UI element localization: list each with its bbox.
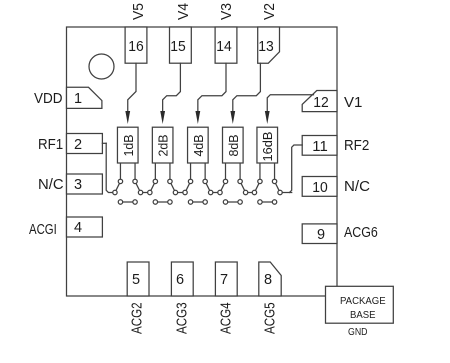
attenuator block 16dB <box>257 127 278 163</box>
pin-1 indicator circle <box>89 54 114 79</box>
node throw T3b <box>203 179 207 183</box>
wire bypass path stage 4 <box>226 201 241 203</box>
svg-text:13: 13 <box>258 39 274 55</box>
pin 16 box (V5) <box>125 27 147 63</box>
switch SW5a arm (input) <box>254 181 260 192</box>
wire node between stage 4 and 5 <box>246 192 255 194</box>
svg-text:1dB: 1dB <box>121 135 136 157</box>
switch SW2b arm (output) <box>170 181 176 192</box>
wire 2dB input lead <box>154 163 156 181</box>
svg-text:ACG2: ACG2 <box>130 302 146 334</box>
svg-text:5: 5 <box>132 272 140 288</box>
pin 1 box (VDD) <box>67 87 102 108</box>
pin 10 box (N/C) <box>302 177 337 197</box>
wire bypass path stage 5 <box>260 201 275 203</box>
node throw T4b <box>238 179 242 183</box>
switch SW4a arm (input) <box>220 181 226 192</box>
svg-text:8: 8 <box>264 272 272 288</box>
svg-text:15: 15 <box>170 39 186 55</box>
svg-text:BASE: BASE <box>350 310 376 321</box>
svg-text:4dB: 4dB <box>191 135 206 157</box>
pin 5 box (ACG2) <box>127 262 149 296</box>
wire RF1 to switch chain <box>102 142 106 144</box>
svg-text:7: 7 <box>220 272 228 288</box>
svg-text:ACG5: ACG5 <box>263 302 279 334</box>
wire chain output <box>280 192 292 194</box>
wire V1 control to 16dB attenuator (arrow) <box>267 95 313 112</box>
pin 8 box (ACG5) <box>259 262 281 296</box>
svg-text:GND: GND <box>348 327 368 338</box>
wire V3 control to 4dB attenuator (arrow) <box>198 63 226 112</box>
node pole P5b <box>278 190 282 194</box>
node pole P3a <box>183 190 187 194</box>
node pole P2b <box>173 190 177 194</box>
switch SW1a arm (input) <box>115 181 121 192</box>
pin 7 box (ACG4) <box>215 262 237 296</box>
switch SW1b arm (output) <box>135 181 141 192</box>
svg-text:9: 9 <box>317 227 325 243</box>
svg-text:1: 1 <box>74 91 82 107</box>
wire 4dB input lead <box>190 163 192 181</box>
node throw T1a <box>118 179 122 183</box>
pin 15 box (V4) <box>170 27 192 63</box>
node pole P4b <box>243 190 247 194</box>
wire bypass path stage 2 <box>155 201 170 203</box>
attenuator block 2dB <box>152 127 173 163</box>
svg-text:N/C: N/C <box>344 179 370 195</box>
svg-text:V4: V4 <box>176 3 192 20</box>
node bypass contact B1b <box>133 200 137 204</box>
wire node between stage 3 and 4 <box>211 192 220 194</box>
svg-text:8dB: 8dB <box>226 135 241 157</box>
attenuator block 4dB <box>188 127 209 163</box>
wire node between stage 2 and 3 <box>175 192 185 194</box>
node bypass contact B4a <box>223 200 227 204</box>
pin 9 box (ACG6) <box>302 224 337 244</box>
wire 8dB input lead <box>225 163 227 181</box>
node throw T1b <box>133 179 137 183</box>
node pole P5a <box>252 190 256 194</box>
pin 13 box (V2) <box>258 27 280 63</box>
wire 1dB input lead <box>119 163 121 181</box>
switch SW4b arm (output) <box>240 181 246 192</box>
node pole P1a <box>113 190 117 194</box>
node throw T4a <box>223 179 227 183</box>
node pole P2a <box>148 190 152 194</box>
wire 8dB output lead <box>239 163 241 181</box>
node bypass contact B1a <box>118 200 122 204</box>
svg-text:ACG6: ACG6 <box>344 225 378 241</box>
pin 4 box (ACGI) <box>67 217 103 237</box>
svg-text:PACKAGE: PACKAGE <box>340 296 386 307</box>
package base paddle box <box>326 286 394 323</box>
wire 2dB output lead <box>169 163 171 181</box>
node bypass contact B5b <box>272 200 276 204</box>
node pole P1b <box>138 190 142 194</box>
switch SW3a arm (input) <box>185 181 191 192</box>
svg-text:RF1: RF1 <box>38 137 63 153</box>
svg-text:16dB: 16dB <box>260 132 275 162</box>
svg-text:ACGI: ACGI <box>29 222 57 238</box>
svg-text:ACG3: ACG3 <box>175 302 191 334</box>
svg-text:V3: V3 <box>219 3 235 20</box>
svg-text:3: 3 <box>74 177 82 193</box>
wire bypass path stage 3 <box>191 201 206 203</box>
svg-text:2dB: 2dB <box>156 135 171 157</box>
node throw T2a <box>153 179 157 183</box>
chip body outline <box>67 27 338 296</box>
node bypass contact B5a <box>258 200 262 204</box>
wire V4 control to 2dB attenuator (arrow) <box>163 63 181 112</box>
svg-text:12: 12 <box>313 95 329 111</box>
attenuator block 1dB <box>117 127 138 163</box>
svg-text:2: 2 <box>74 137 82 153</box>
node throw T5a <box>258 179 262 183</box>
svg-text:16: 16 <box>128 39 144 55</box>
switch SW2a arm (input) <box>150 181 156 192</box>
attenuator block 8dB <box>223 127 244 163</box>
svg-text:10: 10 <box>312 180 328 196</box>
svg-text:RF2: RF2 <box>344 138 369 154</box>
node pole P4a <box>218 190 222 194</box>
wire 16dB input lead <box>259 163 261 181</box>
pin 11 box (RF2) <box>302 136 337 156</box>
svg-text:14: 14 <box>216 39 232 55</box>
node bypass contact B3a <box>188 200 192 204</box>
pin 3 box (N/C) <box>67 174 103 194</box>
wire 16dB output lead <box>274 163 276 181</box>
pin 12 box (V1) <box>302 91 337 112</box>
pin 2 box (RF1) <box>67 134 103 154</box>
switch SW3b arm (output) <box>205 181 211 192</box>
wire 1dB output lead <box>134 163 136 181</box>
pin 14 box (V3) <box>215 27 237 63</box>
node throw T5b <box>272 179 276 183</box>
node pole P3b <box>208 190 212 194</box>
wire 4dB output lead <box>204 163 206 181</box>
wire bypass path stage 1 <box>120 201 135 203</box>
node throw T2b <box>168 179 172 183</box>
svg-text:N/C: N/C <box>38 177 64 193</box>
node throw T3a <box>188 179 192 183</box>
svg-text:V2: V2 <box>262 3 278 20</box>
node bypass contact B2b <box>168 200 172 204</box>
svg-text:4: 4 <box>74 220 82 236</box>
switch SW5b arm (output) <box>275 181 281 192</box>
wire V5 control to 1dB attenuator (arrow) <box>128 63 136 112</box>
svg-text:V1: V1 <box>344 95 362 111</box>
node bypass contact B2a <box>153 200 157 204</box>
pin 6 box (ACG3) <box>171 262 193 296</box>
svg-text:11: 11 <box>312 139 328 155</box>
svg-text:ACG4: ACG4 <box>219 302 235 334</box>
node bypass contact B4b <box>238 200 242 204</box>
svg-text:6: 6 <box>176 272 184 288</box>
wire node between stage 1 and 2 <box>141 192 150 194</box>
svg-text:VDD: VDD <box>34 91 63 107</box>
node bypass contact B3b <box>203 200 207 204</box>
svg-text:V5: V5 <box>131 3 147 20</box>
wire V2 control to 8dB attenuator (arrow) <box>233 63 261 112</box>
